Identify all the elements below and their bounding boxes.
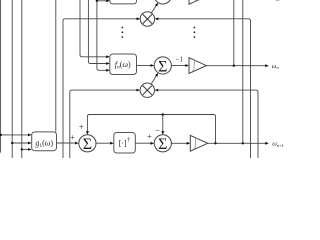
arrowhead into top multiplier left bbox=[137, 17, 141, 20]
junction dot omega_n+1 line to right bus B bbox=[242, 142, 244, 144]
svg-text:−1: −1 bbox=[176, 55, 184, 63]
arrowhead into dagger block bbox=[110, 142, 114, 145]
arrowhead into g1 input 1 bbox=[28, 134, 32, 137]
junction dot on bus 2 at g1 tap bbox=[11, 142, 13, 144]
arrowhead diagonal into top sum bbox=[155, 3, 158, 7]
cut label remnant top right bbox=[276, 0, 280, 2]
wire: g1 output to bottom sum 1 bbox=[57, 142, 76, 144]
junction dot feedback to sum2 drop bbox=[162, 113, 164, 115]
arrowhead into g1 input 2 bbox=[28, 142, 32, 145]
arrowhead into f_n input 1 bbox=[106, 55, 110, 58]
wire: vertical from g1 block top going up bbox=[55, 0, 57, 132]
svg-text:[·]: [·] bbox=[119, 139, 127, 148]
wire: left bus line 3 bbox=[21, 0, 23, 158]
wire: middle sum to middle integrator bbox=[171, 65, 185, 67]
junction dot on bus 3 at g1 tap bbox=[21, 148, 23, 150]
arrowhead into f_n input 3 bbox=[106, 69, 110, 72]
arrowhead into bottom integrator bbox=[187, 142, 191, 145]
arrowhead into top multiplier right bbox=[155, 17, 159, 20]
bottom integrator triangle bbox=[190, 135, 207, 151]
top block (cut off) bbox=[110, 0, 137, 4]
wire: feeder to f_n input 1 bbox=[80, 0, 106, 57]
arrowhead into middle integrator bbox=[185, 64, 189, 67]
wire: bottom sum 2 to bottom integrator bbox=[171, 142, 187, 144]
arrowhead into bottom sum 2 left bbox=[151, 142, 155, 145]
wire: right bus D into middle multiplier right input bbox=[158, 90, 258, 158]
bottom sum circle 2 bbox=[154, 135, 171, 153]
wire: dagger block to bottom sum 2 bbox=[135, 142, 151, 144]
junction dot omega_n+1 feedback branch bbox=[214, 142, 216, 144]
block g_1(omega) bbox=[32, 132, 57, 151]
vdots column 2 bbox=[194, 27, 196, 38]
wire: left bus line 2 bbox=[11, 0, 13, 158]
wire: feedback drop into bottom sum 2 top bbox=[162, 115, 164, 132]
arrowhead into bottom sum 2 top bbox=[161, 131, 164, 135]
wire: bottom sum 1 to dagger block bbox=[96, 142, 110, 144]
wire: right bus B carrying omega_n+1 up bbox=[242, 0, 244, 143]
middle sum circle bbox=[154, 57, 171, 75]
wire: left bus line 1 bbox=[0, 0, 2, 153]
svg-text:−: − bbox=[155, 125, 160, 135]
middle multiplier circle bbox=[140, 83, 154, 97]
svg-text:Σ: Σ bbox=[158, 136, 167, 153]
wire: diagonal from top multiplier to top sum bbox=[151, 6, 156, 13]
wire: omega_n+1 feedback up and across bbox=[87, 115, 215, 144]
wire: f_n output to middle sum bbox=[137, 65, 151, 67]
bottom sum circle 1 bbox=[79, 135, 96, 153]
arrowhead into middle multiplier left bbox=[136, 89, 140, 92]
arrowhead diagonal into middle sum bbox=[155, 73, 158, 77]
arrowhead into bottom sum 1 top bbox=[86, 131, 89, 135]
block [.]-dagger bbox=[114, 133, 136, 154]
arrowhead omega_n+1 output bbox=[265, 142, 269, 145]
svg-text:ωn+1: ωn+1 bbox=[272, 141, 284, 148]
wire: vertical riser feeding top multiplier left input bbox=[63, 19, 137, 158]
block f_n(omega) bbox=[110, 54, 137, 75]
svg-text:Σ: Σ bbox=[158, 0, 167, 4]
svg-text:†: † bbox=[127, 138, 130, 144]
arrowhead into middle sum from f_n bbox=[151, 64, 155, 67]
wire: right bus C into top multiplier right input bbox=[158, 19, 250, 158]
top multiplier circle bbox=[140, 12, 154, 26]
wire: right bus A carrying omega_n up bbox=[233, 0, 235, 66]
wire: bus1 tap to g1 input 1 bbox=[1, 134, 29, 136]
wire: vertical riser feeding middle multiplier left input bbox=[70, 90, 137, 158]
arrowhead into middle multiplier right bbox=[155, 89, 159, 92]
junction dot on bus 1 at g1 tap bbox=[0, 134, 2, 136]
wire: feeder to f_n input 2 bbox=[88, 0, 106, 64]
wire: bus3 tap to g1 input 3 bbox=[22, 148, 29, 150]
middle integrator triangle bbox=[189, 58, 206, 74]
arrowhead into bottom sum 1 left bbox=[75, 142, 79, 145]
arrowhead into top block input bbox=[106, 0, 110, 2]
wire: omega_n+1 output line bbox=[208, 142, 266, 144]
top sum circle (cut off) bbox=[154, 0, 171, 4]
svg-text:ωn: ωn bbox=[272, 63, 280, 70]
wire: omega_n output line bbox=[206, 65, 265, 67]
svg-text:+: + bbox=[79, 122, 84, 132]
vdots column 1 bbox=[121, 27, 123, 38]
svg-text:+: + bbox=[147, 131, 152, 141]
wire: diagonal from middle multiplier to middle sum bbox=[151, 76, 156, 84]
arrowhead omega_n output bbox=[265, 64, 269, 67]
wire: tap to top block input bbox=[97, 0, 107, 2]
svg-text:Σ: Σ bbox=[158, 58, 167, 75]
arrowhead into g1 input 3 bbox=[28, 148, 32, 151]
wire: feeder to f_n input 3 bbox=[97, 1, 107, 71]
svg-text:Σ: Σ bbox=[83, 136, 92, 153]
svg-text:+: + bbox=[70, 132, 75, 142]
wire: bus2 tap to g1 input 2 bbox=[12, 142, 28, 144]
top integrator triangle (cut off) bbox=[189, 0, 206, 4]
junction dot on feeder at top block tap bbox=[96, 0, 98, 2]
junction dot omega_n line to right bus A bbox=[233, 65, 235, 67]
arrowhead into f_n input 2 bbox=[106, 62, 110, 65]
